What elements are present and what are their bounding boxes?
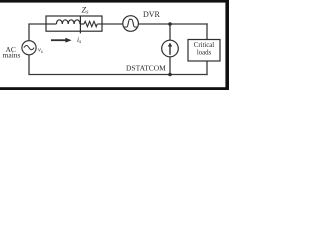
- wire: DSTATCOM bottom to bottom bus: [169, 57, 171, 75]
- DSTATCOM (shunt current source): [162, 40, 179, 57]
- svg-text:DSTATCOM: DSTATCOM: [126, 64, 166, 73]
- AC source V1 (AC mains): [22, 41, 36, 55]
- wire: AC source bottom, left vertical and bottom bus: [29, 55, 207, 75]
- svg-text:Critical: Critical: [194, 42, 214, 49]
- Critical loads box: [188, 40, 220, 62]
- wire: box right edge to DVR: [102, 23, 123, 25]
- wire: AC source top to impedance box: [29, 24, 46, 40]
- wire: DVR to right corner: [138, 23, 207, 25]
- impedance box Zs: [46, 16, 102, 31]
- svg-text:mains: mains: [3, 51, 21, 60]
- DVR (series source symbol): [123, 16, 139, 32]
- divider between L and R cells: [79, 16, 81, 33]
- wire: Critical loads box bottom to bottom bus: [206, 61, 208, 75]
- inductor Ls: [46, 20, 84, 24]
- svg-text:loads: loads: [197, 49, 212, 56]
- svg-text:DVR: DVR: [143, 10, 161, 19]
- node: junction dot on bottom bus: [168, 73, 172, 77]
- current arrow is: [51, 39, 67, 41]
- resistor Rs: [84, 21, 102, 26]
- wire: right vertical into Critical loads box top: [206, 24, 208, 40]
- wire: junction down to DSTATCOM top: [169, 24, 171, 40]
- node: junction dot at PCC (top): [168, 22, 172, 26]
